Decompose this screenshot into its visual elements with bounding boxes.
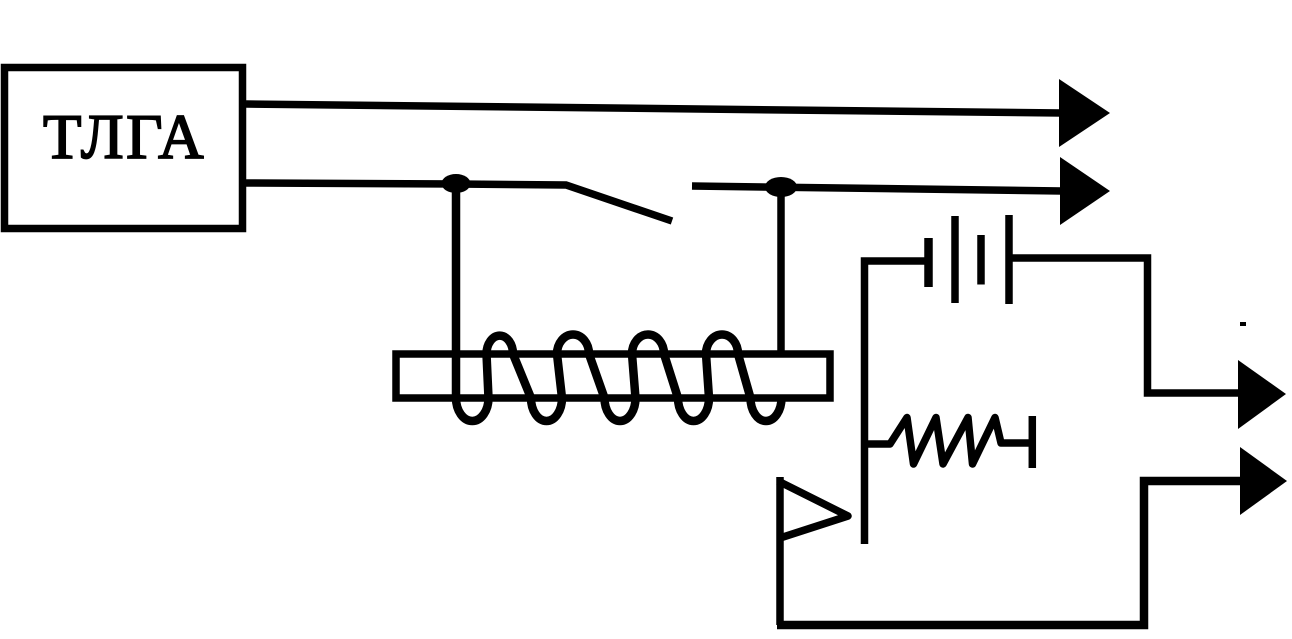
arrowhead: output 1 [1059, 79, 1110, 147]
arrowhead: output 2 [1060, 157, 1110, 225]
junction node B [765, 177, 797, 197]
wire: lower line, box to node A [246, 183, 458, 184]
battery GB1 plate 2 (long) [951, 216, 959, 303]
wire: lower line, resume to node B and output [692, 186, 1062, 191]
wire: node B down to coil core [777, 192, 785, 355]
svg-text:ТЛГА: ТЛГА [43, 102, 206, 172]
resistor R1 right terminal bar [1029, 416, 1037, 468]
battery GB1 plate 3 (short) [977, 235, 985, 285]
wire: contact arm down to bottom rail [776, 477, 784, 625]
battery GB1 plate 1 (short) [924, 238, 933, 287]
wire: bottom rail and right rail up to output 4 [777, 481, 1242, 625]
scan speck [1240, 322, 1246, 326]
arrowhead: output 3 [1238, 360, 1286, 429]
battery GB1 plate 4 (long) [1005, 215, 1013, 304]
block TLGA (telegraph apparatus) [5, 68, 243, 229]
wire: top output line [246, 104, 1062, 113]
wire: battery right lead, right rail down to output 3 [1012, 258, 1240, 393]
inductor L1 winding (wire from node A wound around core) [456, 188, 782, 421]
relay core bar [396, 354, 830, 398]
wire: battery left lead and left rail down to contact [865, 261, 929, 544]
junction node A [442, 174, 471, 193]
switch blade S1 (open) [456, 184, 672, 221]
arrowhead: output 4 [1240, 447, 1287, 515]
resistor R1 [865, 418, 1030, 465]
contact K1 (flag) [778, 481, 848, 538]
